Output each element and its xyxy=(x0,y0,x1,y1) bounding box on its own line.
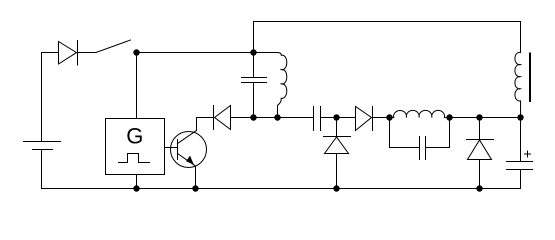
diode D3 (shunt, cathode up) xyxy=(324,118,351,189)
transistor Q1 xyxy=(171,118,207,189)
diode D1 xyxy=(59,41,78,66)
wire G box to transistor base xyxy=(165,147,178,149)
dot L1 bottom xyxy=(274,114,280,120)
wire node B to L1 bottom xyxy=(254,117,278,119)
wire collector to diode D2 xyxy=(197,117,214,119)
ground rail xyxy=(42,188,521,190)
inductor L3 with core xyxy=(515,22,521,118)
dot G box bottom xyxy=(133,185,139,191)
diode D2 xyxy=(214,106,231,130)
wire G box bottom to ground rail xyxy=(136,175,138,189)
node E dot xyxy=(476,114,482,120)
wire L1 bottom to C2 xyxy=(278,117,314,119)
diode D4 xyxy=(356,107,373,131)
wire J1 to node A xyxy=(137,52,254,54)
wire L2 right to node E xyxy=(450,117,480,119)
inductor L1 xyxy=(254,53,287,118)
node B dot xyxy=(250,114,256,120)
node F dot xyxy=(517,114,523,120)
svg-text:G: G xyxy=(126,123,143,148)
battery B1 xyxy=(24,53,61,189)
node J1 dot xyxy=(133,49,139,55)
wire node C to diode D4 xyxy=(337,117,356,119)
riser node A to top rail xyxy=(253,22,255,53)
node C dot xyxy=(333,114,339,120)
capacitor C2 xyxy=(314,107,321,131)
dot emitter ground xyxy=(192,185,198,191)
wire battery to diode D1 xyxy=(42,52,59,54)
node D dot xyxy=(386,114,392,120)
inductor L2 xyxy=(390,110,450,117)
dot D5 ground xyxy=(476,185,482,191)
node A dot xyxy=(250,49,256,55)
electrolytic capacitor C4 xyxy=(507,118,533,189)
dot L2 right xyxy=(446,114,452,120)
generator box G1 xyxy=(106,119,165,175)
dot D3 ground xyxy=(333,185,339,191)
wire C2 to node C xyxy=(321,117,337,119)
wire D1 to switch xyxy=(78,52,97,54)
wire node E to node F xyxy=(480,117,521,119)
switch S1 blade xyxy=(96,40,131,53)
wire J1 down to generator box xyxy=(136,53,138,119)
plus sign of C4 xyxy=(525,151,531,157)
diode D5 (shunt, cathode up) xyxy=(467,118,494,189)
wire D4 to node D xyxy=(373,117,390,119)
core bar of L3 xyxy=(529,54,531,102)
top rail xyxy=(254,21,521,23)
capacitor C1 xyxy=(242,53,267,118)
wire D2 to node B xyxy=(231,117,254,119)
capacitor C3 (parallel with L2) xyxy=(390,118,450,160)
